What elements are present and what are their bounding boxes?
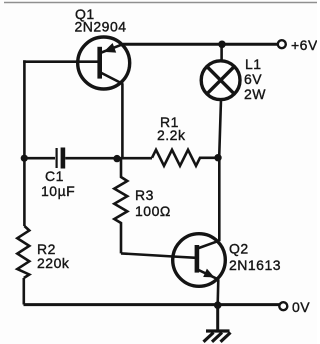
- svg-text:2N1613: 2N1613: [229, 257, 281, 273]
- svg-text:0V: 0V: [292, 299, 310, 315]
- svg-text:10µF: 10µF: [41, 183, 75, 199]
- capacitor C1: [57, 148, 63, 169]
- ground: [204, 306, 231, 342]
- resistor R2: [17, 226, 29, 278]
- wire C1 left lead: [24, 157, 55, 160]
- label C1 value 10uF: [41, 183, 75, 199]
- resistor R3: [114, 158, 127, 253]
- wire lamp bottom to node C: [219, 99, 221, 157]
- svg-text:2N2904: 2N2904: [75, 19, 127, 35]
- label L1 voltage 6V: [244, 71, 262, 87]
- junction dot ground: [214, 301, 222, 309]
- transistor Q1 2N2904: [78, 37, 130, 89]
- junction dot node B: [113, 155, 120, 162]
- label +6V: [291, 37, 318, 53]
- label Q1 type 2N2904: [75, 19, 127, 35]
- label R1 value 2.2k: [157, 127, 186, 143]
- svg-text:100Ω: 100Ω: [135, 203, 171, 219]
- transistor Q2 2N1613: [173, 234, 226, 287]
- svg-text:R3: R3: [135, 187, 154, 203]
- label R2: [37, 241, 56, 257]
- svg-text:220k: 220k: [37, 255, 70, 271]
- terminal 0V: [279, 302, 287, 310]
- label C1: [45, 168, 64, 184]
- wire Q2 emitter down to 0V rail: [216, 279, 219, 304]
- svg-text:C1: C1: [45, 168, 64, 184]
- junction dot node C (R1 right): [214, 154, 221, 161]
- label L1: [245, 56, 262, 72]
- terminal +6V: [278, 40, 286, 48]
- label 0V: [292, 299, 310, 315]
- wire R2 bottom to 0V rail: [22, 278, 25, 305]
- label Q2 type 2N1613: [229, 257, 281, 273]
- label L1 power 2W: [244, 86, 266, 102]
- svg-text:2.2k: 2.2k: [157, 127, 186, 143]
- wire lamp top lead: [220, 44, 223, 61]
- wire +6V rail: [123, 43, 278, 46]
- label R3: [135, 187, 154, 203]
- junction dot node A (C1 left / left rail): [21, 155, 28, 162]
- resistor R1: [152, 150, 217, 166]
- wire Q1 base to left rail: [23, 60, 97, 63]
- wire left vertical (base node down to R2 top): [23, 60, 26, 226]
- top page border: [4, 2, 317, 4]
- label Q1: [75, 6, 95, 22]
- label R3 value 100ohm: [135, 203, 171, 219]
- label R1: [160, 114, 179, 130]
- junction dot top rail / lamp: [218, 41, 226, 49]
- wire node C down to Q2 collector: [218, 157, 221, 241]
- wire C1 right lead to node B: [65, 157, 152, 160]
- svg-text:2W: 2W: [244, 86, 266, 102]
- wire 0V rail: [24, 303, 280, 306]
- wire Q1 collector down to node B: [121, 84, 124, 159]
- svg-text:L1: L1: [245, 56, 262, 72]
- label Q2: [229, 241, 249, 257]
- svg-text:+6V: +6V: [291, 37, 317, 53]
- lamp L1: [201, 61, 240, 100]
- svg-text:Q2: Q2: [229, 241, 249, 257]
- wire Q2 base from R3: [121, 253, 196, 257]
- label R2 value 220k: [37, 255, 70, 271]
- svg-text:6V: 6V: [244, 71, 262, 87]
